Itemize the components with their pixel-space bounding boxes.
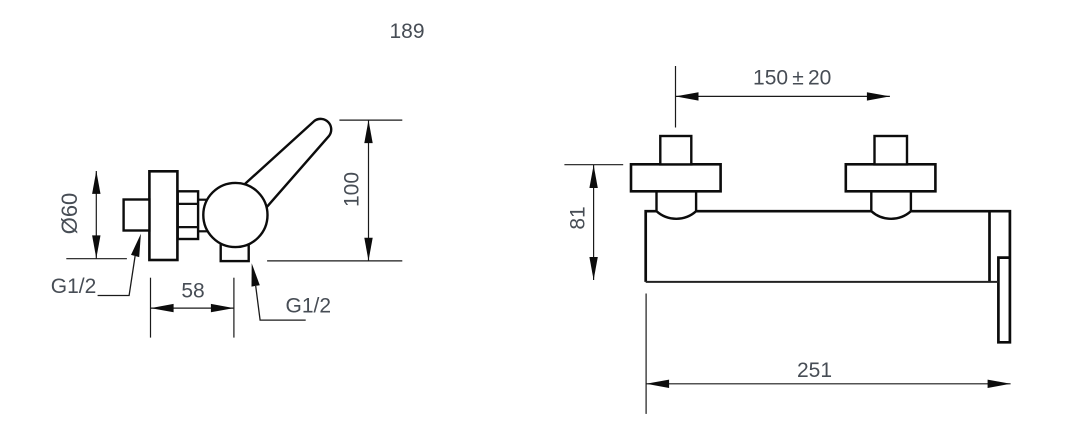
svg-text:100: 100: [341, 172, 364, 207]
arrow 81 bottom: [589, 257, 597, 280]
leader arrow G1/2 right: [252, 263, 260, 286]
arrow 150 left: [676, 92, 699, 100]
extension line bottom-left: [66, 258, 127, 260]
leader arrow G1/2 left: [131, 234, 141, 257]
dim text 100 (rotated): [341, 172, 364, 207]
arrow 58 right: [211, 304, 234, 312]
dim text 251: [797, 359, 832, 382]
arrow 81 top: [589, 165, 597, 188]
svg-text:58: 58: [181, 280, 204, 303]
dimension 81: [564, 165, 623, 280]
arrow O60 bottom: [92, 235, 100, 258]
dimension O60 line: [95, 171, 97, 259]
svg-text:Ø60: Ø60: [57, 193, 82, 235]
arrow 100 top: [364, 120, 372, 143]
arrow 251 right: [988, 380, 1011, 388]
right inlet flange: [846, 164, 936, 191]
dim text 81 (rotated): [567, 206, 590, 229]
dim text O60 (rotated): [57, 193, 82, 235]
arrow 150 right: [867, 92, 890, 100]
arrow 251 left: [646, 380, 669, 388]
stepped adapter flange: [178, 191, 198, 239]
leader line G1/2 left: [98, 256, 136, 296]
left inlet connection dome: [657, 191, 697, 219]
valve body circle: [203, 183, 267, 247]
arrow 58 left: [151, 304, 174, 312]
connector stub lines between step flange and valve body: [198, 200, 210, 232]
arrow 100 bottom: [364, 238, 372, 261]
outlet spout stub under valve body: [221, 242, 249, 261]
dim text 189 (overall width): [389, 20, 424, 43]
wall escutcheon plate (tall rect): [149, 171, 177, 260]
svg-text:G1/2: G1/2: [286, 295, 332, 318]
arrow O60 top: [92, 171, 100, 194]
left inlet nut: [660, 136, 691, 164]
extension line top (handle tip level): [339, 119, 402, 121]
svg-text:G1/2: G1/2: [51, 275, 97, 298]
svg-text:189: 189: [389, 20, 424, 43]
faucet body bar outline: [646, 211, 1010, 342]
svg-text:81: 81: [567, 206, 590, 229]
bar bottom edge: [646, 281, 999, 283]
extension line bottom-right of outlet: [267, 260, 402, 262]
lever handle (side view, tapered with round cap): [244, 119, 331, 208]
svg-text:251: 251: [797, 359, 832, 382]
svg-text:150 ± 20: 150 ± 20: [753, 67, 831, 90]
leader line G1/2 right: [256, 286, 306, 320]
label G1/2 right: [286, 295, 332, 318]
right inlet nut: [875, 136, 908, 164]
dimension 100 line: [368, 120, 370, 261]
label G1/2 left: [51, 275, 97, 298]
dimension 150+-20: [676, 66, 890, 128]
dimension 251: [646, 294, 1011, 414]
left inlet flange: [631, 164, 721, 191]
dim text 150+-20: [753, 67, 831, 90]
dimension 58 extension lines: [151, 278, 234, 338]
dim text 58: [181, 280, 204, 303]
right inlet connection dome: [871, 191, 911, 219]
wall inlet nipple: [124, 200, 150, 231]
